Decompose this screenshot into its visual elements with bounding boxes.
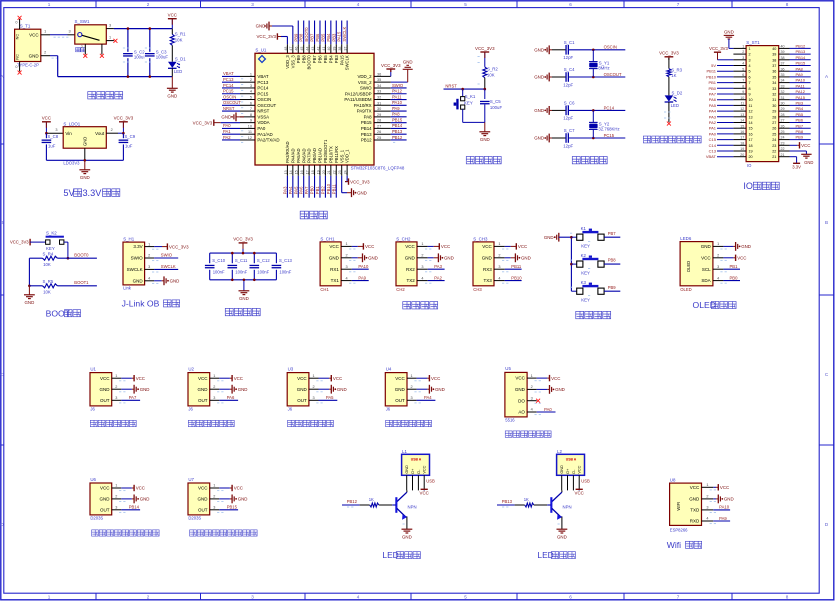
svg-text:BOOT0: BOOT0: [74, 253, 89, 258]
svg-text:34: 34: [781, 79, 785, 83]
svg-text:U5: U5: [505, 366, 511, 371]
svg-text:LED: LED: [174, 69, 182, 74]
svg-text:KEY: KEY: [581, 298, 590, 303]
svg-text:PC15: PC15: [257, 91, 269, 96]
svg-text:S_ST1: S_ST1: [746, 40, 760, 45]
svg-text:7: 7: [677, 595, 680, 600]
svg-text:KEY: KEY: [581, 244, 590, 249]
svg-text:5: 5: [464, 595, 467, 600]
svg-text:GND: GND: [29, 53, 40, 58]
svg-text:PB5: PB5: [323, 55, 328, 64]
svg-text:GND: GND: [403, 59, 413, 64]
svg-text:8MHz: 8MHz: [598, 66, 609, 71]
svg-text:CH3: CH3: [473, 287, 482, 292]
svg-text:35: 35: [377, 78, 381, 82]
svg-text:31: 31: [781, 96, 785, 100]
svg-text:12pF: 12pF: [563, 55, 573, 60]
svg-text:27: 27: [772, 121, 776, 125]
svg-text:PB7: PB7: [312, 55, 317, 64]
svg-text:VDDA: VDDA: [257, 120, 269, 125]
svg-text:100nF: 100nF: [257, 270, 269, 275]
svg-text:PB3: PB3: [331, 33, 336, 42]
svg-text:S_C9: S_C9: [124, 134, 135, 139]
svg-text:AO: AO: [518, 410, 525, 415]
svg-text:3: 3: [213, 506, 215, 510]
svg-text:4: 4: [749, 64, 751, 68]
svg-text:PA5: PA5: [326, 395, 334, 400]
svg-text:46: 46: [295, 47, 299, 51]
svg-text:37: 37: [344, 47, 348, 51]
svg-text:PA2: PA2: [709, 120, 717, 125]
svg-text:VCC_3V3: VCC_3V3: [350, 179, 370, 184]
svg-text:OUT: OUT: [100, 398, 110, 403]
svg-text:PA2: PA2: [223, 135, 231, 140]
svg-text:3.3V: 3.3V: [82, 188, 102, 198]
svg-text:VCC: VCC: [420, 491, 429, 496]
svg-text:PA1/AD: PA1/AD: [257, 132, 272, 137]
svg-text:8: 8: [749, 87, 751, 91]
svg-text:14: 14: [740, 119, 744, 123]
svg-text:10K: 10K: [487, 72, 495, 77]
svg-text:18: 18: [311, 170, 315, 174]
svg-text:PB0: PB0: [708, 86, 716, 91]
svg-text:PB13: PB13: [361, 132, 372, 137]
svg-text:1: 1: [531, 374, 533, 378]
svg-text:1: 1: [345, 242, 347, 246]
svg-text:3: 3: [717, 265, 719, 269]
svg-text:1K: 1K: [369, 497, 374, 502]
svg-text:GND: GND: [724, 29, 734, 34]
svg-text:GND: GND: [198, 387, 209, 392]
svg-text:VCC: VCC: [365, 244, 374, 249]
svg-text:PA6: PA6: [227, 395, 235, 400]
svg-text:PA2/TX/AD: PA2/TX/AD: [257, 138, 279, 143]
svg-text:PB5: PB5: [796, 112, 804, 117]
svg-text:43: 43: [311, 47, 315, 51]
svg-text:3: 3: [115, 396, 117, 400]
svg-text:NPN: NPN: [408, 505, 417, 510]
svg-text:12: 12: [749, 110, 753, 114]
svg-text:16: 16: [749, 132, 753, 136]
svg-text:18: 18: [749, 144, 753, 148]
svg-text:IO: IO: [743, 181, 753, 191]
svg-text:GND: GND: [395, 387, 406, 392]
svg-text:6: 6: [569, 595, 572, 600]
svg-text:100nF: 100nF: [279, 270, 291, 275]
svg-text:17: 17: [740, 136, 744, 140]
svg-text:GND: GND: [170, 279, 180, 284]
svg-text:SWIO: SWIO: [131, 256, 143, 261]
svg-text:PB9: PB9: [796, 135, 804, 140]
svg-text:GND: GND: [80, 175, 90, 180]
svg-text:PB13: PB13: [392, 129, 403, 134]
svg-text:VCC: VCC: [441, 244, 450, 249]
svg-text:14: 14: [289, 170, 293, 174]
svg-text:BOOT0: BOOT0: [304, 27, 309, 42]
svg-text:LED: LED: [671, 103, 679, 108]
svg-text:10: 10: [740, 96, 744, 100]
svg-text:VCC: VCC: [100, 376, 110, 381]
svg-text:OSCOUT: OSCOUT: [604, 72, 622, 77]
svg-text:PA7/AD: PA7/AD: [307, 148, 312, 163]
svg-text:26: 26: [772, 127, 776, 131]
svg-text:SWCLK: SWCLK: [127, 267, 143, 272]
svg-text:NRST: NRST: [223, 106, 235, 111]
svg-text:GND: GND: [480, 137, 490, 142]
svg-text:2: 2: [742, 50, 744, 54]
svg-text:C15: C15: [709, 137, 717, 142]
svg-text:41: 41: [322, 47, 326, 51]
svg-text:40: 40: [327, 47, 331, 51]
svg-text:VCC: VCC: [690, 485, 700, 490]
svg-text:2: 2: [213, 385, 215, 389]
svg-text:S_C7: S_C7: [564, 128, 575, 133]
svg-text:PB6: PB6: [318, 55, 323, 64]
svg-text:D203S: D203S: [188, 516, 201, 521]
svg-text:4: 4: [531, 408, 533, 412]
svg-text:2: 2: [213, 495, 215, 499]
svg-text:1: 1: [421, 242, 423, 246]
svg-text:GND: GND: [555, 387, 565, 392]
svg-text:VCC: VCC: [801, 143, 810, 148]
svg-text:OLED: OLED: [686, 261, 691, 272]
svg-text:Vin: Vin: [65, 131, 72, 136]
svg-text:PB10/TX: PB10/TX: [328, 146, 333, 163]
svg-text:PB10: PB10: [511, 275, 522, 280]
svg-text:VCC_3V3: VCC_3V3: [381, 63, 401, 68]
svg-text:J6: J6: [188, 407, 193, 412]
svg-text:VCC: VCC: [234, 376, 243, 381]
svg-text:D203S: D203S: [90, 516, 103, 521]
svg-text:6: 6: [569, 2, 572, 7]
svg-text:2: 2: [531, 385, 533, 389]
svg-text:LED6: LED6: [680, 236, 692, 241]
svg-text:PC14: PC14: [223, 83, 234, 88]
svg-text:VCC: VCC: [405, 244, 415, 249]
svg-text:PB10: PB10: [326, 183, 331, 194]
svg-text:S_R3: S_R3: [671, 67, 682, 72]
svg-text:VCC_3V3: VCC_3V3: [10, 239, 29, 244]
svg-text:36: 36: [781, 67, 785, 71]
svg-text:RXD: RXD: [690, 519, 700, 524]
svg-text:1: 1: [48, 595, 51, 600]
svg-text:PB3: PB3: [796, 101, 804, 106]
svg-text:C14: C14: [709, 143, 717, 148]
svg-text:21: 21: [772, 155, 776, 159]
svg-text:20: 20: [322, 170, 326, 174]
svg-text:1uF: 1uF: [125, 144, 133, 149]
svg-text:OUT: OUT: [198, 507, 208, 512]
svg-text:19: 19: [749, 150, 753, 154]
svg-text:U7: U7: [188, 477, 194, 482]
svg-text:SWCLK: SWCLK: [345, 55, 350, 70]
svg-text:39: 39: [772, 53, 776, 57]
svg-text:NPN: NPN: [563, 505, 572, 510]
svg-text:PA5: PA5: [709, 103, 717, 108]
svg-text:PA11: PA11: [796, 83, 806, 88]
svg-text:7: 7: [677, 2, 680, 7]
svg-text:NC: NC: [16, 54, 20, 60]
svg-text:PA7: PA7: [709, 92, 717, 97]
svg-text:37: 37: [772, 64, 776, 68]
svg-text:DO: DO: [518, 398, 525, 403]
svg-text:VCC: VCC: [198, 376, 208, 381]
svg-text:2: 2: [115, 495, 117, 499]
svg-text:PA0: PA0: [223, 123, 231, 128]
svg-text:USB A: USB A: [566, 457, 577, 461]
svg-text:GND: GND: [804, 160, 813, 165]
svg-text:PB14: PB14: [361, 126, 372, 131]
svg-text:PA10: PA10: [392, 100, 403, 105]
svg-text:PB13: PB13: [796, 49, 807, 54]
svg-text:S_SW1: S_SW1: [75, 19, 90, 24]
svg-text:28: 28: [377, 119, 381, 123]
svg-text:S_C1: S_C1: [564, 40, 575, 45]
svg-text:PB0: PB0: [310, 186, 315, 195]
svg-text:16: 16: [300, 170, 304, 174]
svg-text:4: 4: [148, 277, 150, 281]
svg-text:1uF: 1uF: [48, 144, 56, 149]
svg-text:0: 0: [15, 65, 17, 69]
svg-text:PA1: PA1: [223, 129, 231, 134]
svg-text:TX3: TX3: [484, 278, 493, 283]
svg-text:6: 6: [250, 101, 252, 105]
svg-text:GND: GND: [521, 256, 531, 261]
svg-text:PA10/RX: PA10/RX: [354, 103, 372, 108]
svg-text:PC14: PC14: [257, 86, 269, 91]
svg-text:PC14: PC14: [604, 105, 615, 110]
svg-text:28: 28: [772, 115, 776, 119]
svg-text:PA9: PA9: [358, 275, 366, 280]
svg-text:S_C13: S_C13: [279, 258, 292, 263]
svg-text:GND: GND: [238, 497, 248, 502]
svg-text:IO: IO: [747, 163, 752, 168]
svg-text:10K: 10K: [43, 262, 51, 267]
svg-text:S_D2: S_D2: [672, 90, 683, 95]
svg-text:2: 2: [148, 254, 150, 258]
svg-text:4: 4: [742, 62, 744, 66]
svg-text:38: 38: [338, 47, 342, 51]
svg-text:3: 3: [148, 265, 150, 269]
svg-text:PA8: PA8: [796, 66, 804, 71]
svg-text:PA6/AD: PA6/AD: [301, 148, 306, 163]
svg-text:S_C4: S_C4: [564, 67, 575, 72]
svg-text:S_R2: S_R2: [487, 66, 498, 71]
svg-text:33: 33: [781, 84, 785, 88]
svg-text:18: 18: [740, 141, 744, 145]
svg-text:VCC: VCC: [482, 244, 492, 249]
svg-text:17: 17: [749, 138, 753, 142]
svg-text:PA12: PA12: [796, 89, 806, 94]
svg-text:PA7: PA7: [129, 395, 137, 400]
svg-text:1: 1: [498, 242, 500, 246]
svg-text:VCC_3V3: VCC_3V3: [709, 46, 728, 51]
svg-text:VDD_3: VDD_3: [285, 55, 290, 69]
svg-text:36: 36: [772, 70, 776, 74]
svg-text:1: 1: [213, 374, 215, 378]
svg-text:PB2: PB2: [320, 186, 325, 195]
svg-text:3: 3: [345, 265, 347, 269]
svg-text:VCC: VCC: [578, 465, 582, 473]
svg-text:GND: GND: [405, 465, 409, 474]
svg-text:VCC: VCC: [515, 376, 525, 381]
svg-text:20: 20: [740, 153, 744, 157]
svg-text:3: 3: [749, 58, 751, 62]
svg-text:12pF: 12pF: [563, 143, 573, 148]
svg-text:OUT: OUT: [100, 507, 110, 512]
svg-text:30: 30: [772, 104, 776, 108]
svg-text:PA8: PA8: [392, 112, 400, 117]
svg-text:PB8: PB8: [796, 129, 804, 134]
svg-text:PB15: PB15: [227, 505, 238, 510]
svg-text:PB9: PB9: [296, 55, 301, 64]
svg-text:VCC: VCC: [575, 491, 584, 496]
svg-text:1K: 1K: [524, 497, 529, 502]
svg-text:19: 19: [316, 170, 320, 174]
svg-text:PB0/AD: PB0/AD: [312, 148, 317, 163]
svg-text:PB7: PB7: [310, 33, 315, 42]
svg-text:30: 30: [377, 107, 381, 111]
svg-text:VBAT: VBAT: [706, 154, 717, 159]
svg-text:22: 22: [333, 170, 337, 174]
svg-text:23: 23: [338, 170, 342, 174]
svg-text:23: 23: [772, 144, 776, 148]
svg-text:OUT: OUT: [297, 398, 307, 403]
svg-text:PA8: PA8: [364, 114, 373, 119]
svg-text:8: 8: [786, 2, 789, 7]
svg-text:6: 6: [742, 73, 744, 77]
svg-text:1: 1: [48, 2, 51, 7]
svg-text:VDD_1: VDD_1: [345, 149, 350, 163]
svg-text:S_R5: S_R5: [43, 279, 54, 284]
svg-text:GND: GND: [544, 235, 554, 240]
svg-text:VCC: VCC: [333, 376, 342, 381]
svg-text:5: 5: [464, 2, 467, 7]
svg-text:PB1: PB1: [708, 80, 716, 85]
svg-text:3: 3: [498, 265, 500, 269]
svg-text:36: 36: [377, 72, 381, 76]
svg-text:0: 0: [15, 21, 17, 25]
svg-text:10K: 10K: [43, 289, 51, 294]
svg-text:PA4: PA4: [709, 109, 717, 114]
svg-text:VBAT: VBAT: [223, 71, 234, 76]
svg-text:2: 2: [250, 78, 252, 82]
svg-text:2: 2: [115, 385, 117, 389]
svg-text:5: 5: [749, 70, 751, 74]
svg-text:40: 40: [781, 45, 785, 49]
svg-text:PB12: PB12: [796, 44, 807, 49]
svg-text:5V: 5V: [711, 63, 716, 68]
svg-text:3: 3: [55, 128, 57, 132]
svg-text:C13: C13: [709, 149, 717, 154]
svg-text:48: 48: [284, 47, 288, 51]
svg-text:GND: GND: [724, 497, 734, 502]
svg-text:1: 1: [148, 242, 150, 246]
svg-text:12pF: 12pF: [563, 82, 573, 87]
svg-text:45: 45: [300, 47, 304, 51]
svg-text:2: 2: [749, 53, 751, 57]
svg-text:J6: J6: [288, 407, 293, 412]
svg-text:GND: GND: [534, 48, 544, 53]
svg-text:38: 38: [781, 56, 785, 60]
svg-text:29: 29: [781, 107, 785, 111]
svg-text:GND: GND: [100, 497, 111, 502]
svg-text:GND: GND: [238, 387, 248, 392]
svg-text:3: 3: [251, 595, 254, 600]
svg-text:GND: GND: [557, 535, 567, 540]
svg-text:VCC: VCC: [720, 485, 729, 490]
svg-text:GND: GND: [25, 300, 35, 305]
svg-text:PA5: PA5: [293, 186, 298, 194]
svg-text:26: 26: [377, 130, 381, 134]
svg-text:PA6: PA6: [709, 97, 717, 102]
svg-text:GND: GND: [140, 497, 150, 502]
svg-text:D+: D+: [411, 468, 415, 474]
svg-text:PA3: PA3: [709, 114, 717, 119]
svg-text:9: 9: [749, 93, 751, 97]
svg-text:29: 29: [772, 110, 776, 114]
svg-text:VCC: VCC: [136, 486, 145, 491]
svg-text:PB1: PB1: [730, 264, 739, 269]
svg-text:S_R4: S_R4: [43, 251, 54, 256]
svg-text:PA10: PA10: [358, 264, 369, 269]
svg-text:40: 40: [772, 47, 776, 51]
svg-text:23: 23: [781, 141, 785, 145]
svg-text:PC13: PC13: [257, 80, 269, 85]
svg-text:3: 3: [115, 506, 117, 510]
svg-text:GND: GND: [482, 255, 493, 260]
svg-text:31: 31: [377, 101, 381, 105]
svg-text:KEY: KEY: [581, 271, 590, 276]
svg-text:Link: Link: [123, 286, 132, 291]
svg-text:S_CH2: S_CH2: [396, 236, 411, 241]
svg-text:USB: USB: [426, 479, 435, 484]
svg-text:NC: NC: [16, 34, 20, 40]
svg-text:3: 3: [213, 396, 215, 400]
svg-text:2: 2: [147, 2, 150, 7]
svg-text:5: 5: [250, 96, 252, 100]
svg-text:1: 1: [749, 47, 751, 51]
svg-text:U8: U8: [670, 478, 676, 483]
svg-text:OUT: OUT: [198, 398, 208, 403]
svg-text:1: 1: [717, 242, 719, 246]
svg-text:CH2: CH2: [396, 287, 405, 292]
svg-text:USB: USB: [581, 479, 590, 484]
svg-text:13: 13: [284, 170, 288, 174]
svg-text:VCC_3V3: VCC_3V3: [193, 120, 213, 125]
svg-text:28: 28: [781, 113, 785, 117]
svg-text:GND: GND: [329, 255, 340, 260]
svg-text:13: 13: [749, 115, 753, 119]
svg-text:GND: GND: [256, 24, 266, 29]
svg-text:PA12: PA12: [392, 89, 403, 94]
svg-text:7: 7: [749, 81, 751, 85]
svg-text:25: 25: [781, 130, 785, 134]
svg-text:PA3: PA3: [434, 264, 442, 269]
svg-text:9: 9: [742, 90, 744, 94]
svg-text:11: 11: [248, 130, 252, 134]
svg-text:NRST: NRST: [445, 84, 457, 89]
svg-text:PB8: PB8: [301, 55, 306, 64]
svg-text:PA9: PA9: [796, 72, 804, 77]
svg-text:32: 32: [781, 90, 785, 94]
svg-text:PB11: PB11: [707, 69, 717, 74]
svg-text:39: 39: [333, 47, 337, 51]
svg-text:10: 10: [248, 124, 252, 128]
svg-text:PC13: PC13: [223, 77, 234, 82]
svg-text:OSCOUT: OSCOUT: [223, 100, 241, 105]
svg-text:15: 15: [295, 170, 299, 174]
